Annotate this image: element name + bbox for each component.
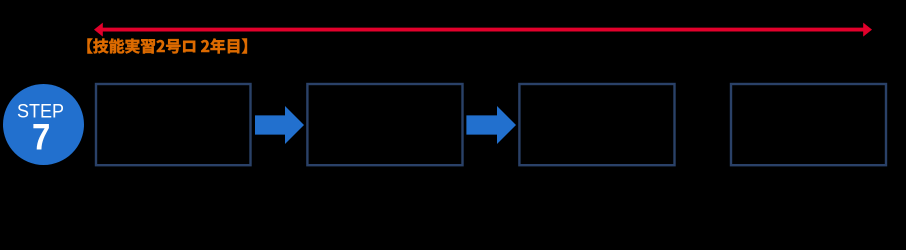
label 技能実習2号ロ 2年目: [88, 39, 247, 54]
flow arrow 1: [255, 106, 304, 144]
box 2: [307, 84, 462, 165]
red timeline double arrow: [94, 23, 872, 37]
svg-text:7: 7: [32, 117, 50, 158]
STEP 7 badge: [3, 84, 84, 165]
flow arrow 2: [466, 106, 516, 144]
box 4: [731, 84, 886, 165]
box 3: [519, 84, 674, 165]
box 1: [96, 84, 251, 165]
